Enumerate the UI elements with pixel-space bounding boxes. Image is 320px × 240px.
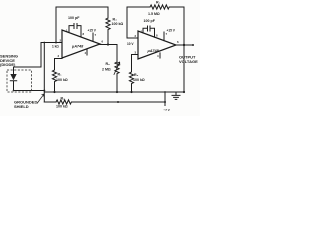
svg-text:SHIELD: SHIELD: [14, 104, 29, 109]
resistor R1 100k pin3 to ground rail: [52, 59, 56, 93]
wire loop 2 right: [171, 7, 184, 45]
svg-text:R₅: R₅: [106, 62, 111, 66]
ground symbol: [172, 92, 180, 99]
op-amp U1 triangle: [62, 30, 100, 58]
wire top feedback loop 2: [127, 7, 150, 38]
wire output down to ground rail: [183, 45, 185, 92]
node pot wiper on lower rail: [117, 101, 119, 103]
svg-text:1.5 MΩ: 1.5 MΩ: [148, 12, 160, 16]
svg-text:100 kΩ: 100 kΩ: [133, 78, 145, 82]
wire U1 inverting input pin 2: [41, 42, 62, 44]
wire lower rail: [44, 101, 56, 103]
node R1 bottom: [53, 91, 55, 93]
svg-text:µA748: µA748: [71, 45, 84, 49]
node diode cathode: [13, 90, 15, 92]
resistor R2 100k lower rail: [56, 100, 165, 104]
potentiometer R5 2M: [115, 62, 119, 92]
svg-text:1 kΩ: 1 kΩ: [52, 45, 59, 49]
wire U2 V- pin 4 stub: [159, 53, 161, 58]
node pot bottom: [116, 91, 118, 93]
wire top feedback loop 1: [56, 7, 108, 43]
node R3 output junction: [107, 43, 109, 45]
svg-text:R₁: R₁: [58, 73, 63, 77]
wire U1 pin 3 input: [55, 58, 63, 60]
svg-text:+15 V: +15 V: [88, 29, 97, 33]
svg-text:R₃: R₃: [113, 18, 118, 22]
wire diode cathode: [14, 90, 45, 92]
wire diode riser: [14, 43, 42, 75]
svg-text:10 V: 10 V: [127, 42, 134, 46]
svg-text:−7 V: −7 V: [164, 108, 170, 112]
node lower rail end: [164, 101, 166, 103]
svg-text:VOLTAGE: VOLTAGE: [179, 59, 198, 64]
wire U2 inverting input pin 2: [127, 37, 138, 39]
output terminal: [192, 44, 194, 46]
pot R5 wiper arrow: [114, 62, 120, 74]
svg-text:100 pF: 100 pF: [144, 19, 156, 23]
resistor R3 100k feedback of U1: [106, 18, 110, 45]
wire U1 V+ pin 7 stub: [92, 33, 94, 41]
dashed box grounded case: [7, 70, 32, 92]
node cathode column junction: [43, 90, 45, 92]
ground rail: [44, 91, 184, 93]
wire U2 V+ pin 7 stub: [163, 32, 165, 41]
node R4 bottom: [130, 91, 132, 93]
svg-text:100 kΩ: 100 kΩ: [56, 78, 68, 82]
node output vertical on rail: [183, 91, 185, 93]
wire pot column top: [116, 45, 118, 63]
op-amp U2 triangle: [138, 31, 176, 59]
resistor R7 1.5M feedback of U2: [150, 5, 171, 9]
svg-text:(DIODE): (DIODE): [0, 62, 16, 67]
svg-text:R₂: R₂: [61, 97, 66, 101]
node feedback junction pin 2: [55, 42, 57, 44]
wire U2 output: [176, 44, 193, 46]
wire U1 output to pot node: [100, 44, 117, 46]
svg-text:R₄: R₄: [134, 73, 139, 77]
wire U1 V- pin 4 stub: [86, 49, 88, 55]
svg-text:100 kΩ: 100 kΩ: [112, 22, 124, 26]
node column junction pin 2: [43, 42, 45, 44]
arrow grounded label: [37, 94, 44, 104]
node output junction: [183, 44, 185, 46]
svg-text:R₇: R₇: [156, 1, 161, 5]
svg-text:100 pF: 100 pF: [68, 16, 80, 20]
node riser on rail: [164, 91, 166, 93]
svg-text:µA748: µA748: [147, 49, 160, 53]
resistor R4 100k: [129, 55, 133, 93]
wire U2 pin 3 input: [132, 54, 139, 56]
svg-text:+15 V: +15 V: [167, 29, 176, 33]
diode D1 sensing: [10, 74, 16, 80]
wire pin2 column to lower rail: [43, 43, 45, 103]
capacitor C1 100pF comp of U1: [69, 24, 81, 38]
capacitor C2 100pF comp of U2: [143, 26, 155, 37]
svg-text:100 kΩ: 100 kΩ: [56, 105, 68, 109]
wire lower rail riser: [164, 92, 166, 102]
wire stub below rail end: [164, 102, 166, 106]
svg-text:2 MΩ: 2 MΩ: [102, 68, 111, 72]
